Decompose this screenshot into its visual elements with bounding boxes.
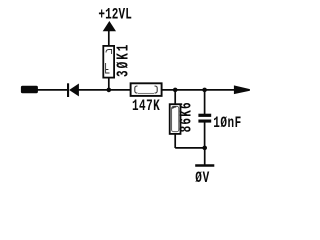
power arrow up to +12VL [103,21,116,31]
svg-text:86K6: 86K6 [178,101,197,132]
resistor 86K6 body [170,104,181,134]
resistor 147K body [131,83,162,96]
wire resistor 147K to output arrow (through nodes B and C) [162,89,235,91]
svg-text:3ØK1: 3ØK1 [115,43,134,77]
resistor 30K1 body [103,46,114,78]
wire terminal to diode cathode [38,89,68,91]
diode D1 triangle [69,84,79,97]
svg-text:ØV: ØV [195,170,210,187]
wire arrow base to resistor R 30K1 top [108,31,110,47]
wire diode to resistor 147K (through node A) [79,89,131,91]
svg-text:1ØnF: 1ØnF [213,116,241,133]
svg-text:147K: 147K [132,98,160,115]
input terminal bar [21,86,38,93]
wire capacitor bottom to node D [204,122,206,148]
node B junction dot [173,88,178,93]
diode D1 cathode bar [67,83,69,97]
wire node B down to resistor 86K6 [174,90,176,105]
ground 0V rail bar [195,164,214,166]
capacitor C1 top plate [198,114,211,117]
wire bottom horizontal to node D [175,147,205,149]
svg-text:+12VL: +12VL [98,7,131,24]
wire node D to ground [204,148,206,165]
wire node C down to capacitor [204,90,206,114]
node A junction dot [107,88,112,93]
capacitor C1 bottom plate [198,120,211,123]
wire resistor 86K6 bottom [174,134,176,148]
wire resistor 30K1 bottom to main node [108,78,110,90]
output arrow [234,85,250,94]
node C junction dot [202,88,207,93]
node D junction dot [202,146,207,151]
